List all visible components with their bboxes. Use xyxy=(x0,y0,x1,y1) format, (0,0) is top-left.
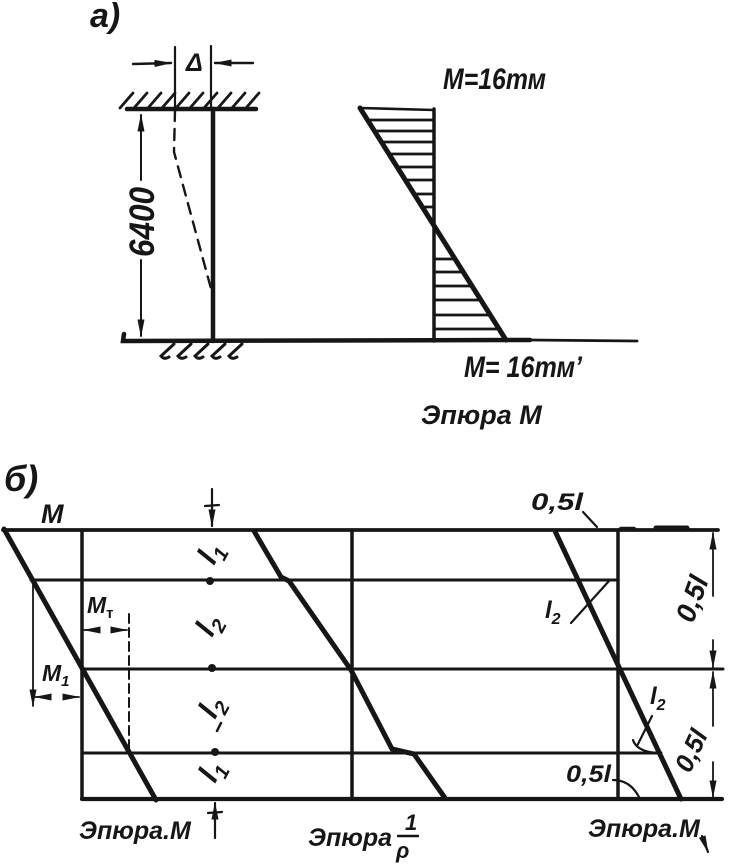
dimension 6400 line upper xyxy=(140,115,142,180)
grid top line H1 xyxy=(3,528,718,532)
ceiling hatching xyxy=(120,93,259,108)
thick tick on top line near right xyxy=(656,526,687,531)
center axis top arrow tick xyxy=(205,505,219,506)
svg-text:l1: l1 xyxy=(191,537,234,572)
svg-text:Эпюра.М: Эпюра.М xyxy=(79,817,192,845)
svg-text:6400: 6400 xyxy=(123,187,162,257)
svg-text:l2: l2 xyxy=(650,683,666,714)
svg-text:Мт: Мт xyxy=(87,592,114,622)
svg-text:l2: l2 xyxy=(545,597,561,628)
grid bottom line H5 xyxy=(82,797,722,801)
svg-text:М: М xyxy=(41,499,64,529)
svg-text:М1: М1 xyxy=(42,660,70,690)
svg-text:М= 16тм’: М= 16тм’ xyxy=(464,351,583,384)
right dimension upper segment xyxy=(712,533,714,596)
0,5l top leader tick xyxy=(583,512,597,527)
grid middle line H3 xyxy=(82,668,723,671)
l2 right angle arc xyxy=(633,740,658,753)
l2 right leader line xyxy=(637,716,652,746)
column xyxy=(211,109,216,341)
moment diagram bottom hatching xyxy=(434,259,499,329)
ceiling line xyxy=(127,107,256,112)
comma tick after l2 row3 label xyxy=(217,723,221,731)
0,5l bottom leader arc xyxy=(613,780,639,797)
delta dimension right arrow xyxy=(215,62,253,64)
grid middle vertical V2 xyxy=(350,530,354,799)
svg-text:l1: l1 xyxy=(192,755,235,790)
svg-text:Эпюра: Эпюра xyxy=(308,824,392,852)
grid left vertical V1 xyxy=(80,530,84,799)
grid line H4 xyxy=(83,752,661,755)
svg-text:l2: l2 xyxy=(192,691,235,726)
M diagram slant line (part b) xyxy=(4,529,156,800)
svg-text:ρ: ρ xyxy=(395,838,409,863)
fraction bar xyxy=(398,835,418,837)
extension line left xyxy=(174,47,176,108)
svg-text:М=16тм: М=16тм xyxy=(443,63,546,96)
Mt dimension arrows xyxy=(84,629,98,631)
grid right vertical V3 xyxy=(616,530,620,799)
node dot on H3 xyxy=(208,664,216,672)
right dimension lower segment xyxy=(712,672,714,726)
delta dimension left arrow xyxy=(133,63,171,64)
dimension 6400 line lower xyxy=(140,260,142,336)
svg-text:0,5l: 0,5l xyxy=(668,724,714,777)
svg-text:0,5l: 0,5l xyxy=(531,489,585,516)
small ink blob on top line xyxy=(621,527,634,532)
svg-text:0,5l: 0,5l xyxy=(566,761,612,788)
ground line xyxy=(123,334,530,341)
M1 dimension arrows xyxy=(35,696,50,698)
svg-text:б): б) xyxy=(4,458,38,499)
center axis top arrow xyxy=(211,489,213,526)
svg-text:Эпюра.М: Эпюра.М xyxy=(588,815,701,843)
svg-text:0,5l: 0,5l xyxy=(670,570,716,626)
extension line right xyxy=(210,46,212,108)
moment diagram hypotenuse xyxy=(360,108,506,340)
ground hatching xyxy=(161,344,242,358)
node dot on H4 xyxy=(211,748,219,756)
caption small down arrow xyxy=(702,836,708,852)
M1 extension vertical line xyxy=(32,581,34,706)
deflected shape dashed line xyxy=(174,110,213,296)
moment diagram top edge xyxy=(360,108,434,110)
svg-text:1: 1 xyxy=(405,810,417,835)
Mt dashed extension line xyxy=(128,614,130,753)
grid line H2 xyxy=(31,579,618,582)
svg-text:Δ: Δ xyxy=(185,49,203,77)
svg-text:Эпюра М: Эпюра М xyxy=(421,400,542,430)
center axis bottom arrow tick xyxy=(208,812,222,813)
svg-text:l2: l2 xyxy=(189,609,232,644)
M-bar diagram slant line xyxy=(555,531,681,799)
ground line thin right part xyxy=(530,340,637,341)
l2 left leader line xyxy=(571,581,609,623)
moment diagram top hatching xyxy=(368,120,434,207)
center axis bottom arrow xyxy=(214,803,216,838)
1/rho diagram polyline xyxy=(254,531,445,798)
node dot on H2 xyxy=(206,577,214,585)
moment diagram axis xyxy=(432,109,436,341)
svg-text:а): а) xyxy=(90,0,120,35)
